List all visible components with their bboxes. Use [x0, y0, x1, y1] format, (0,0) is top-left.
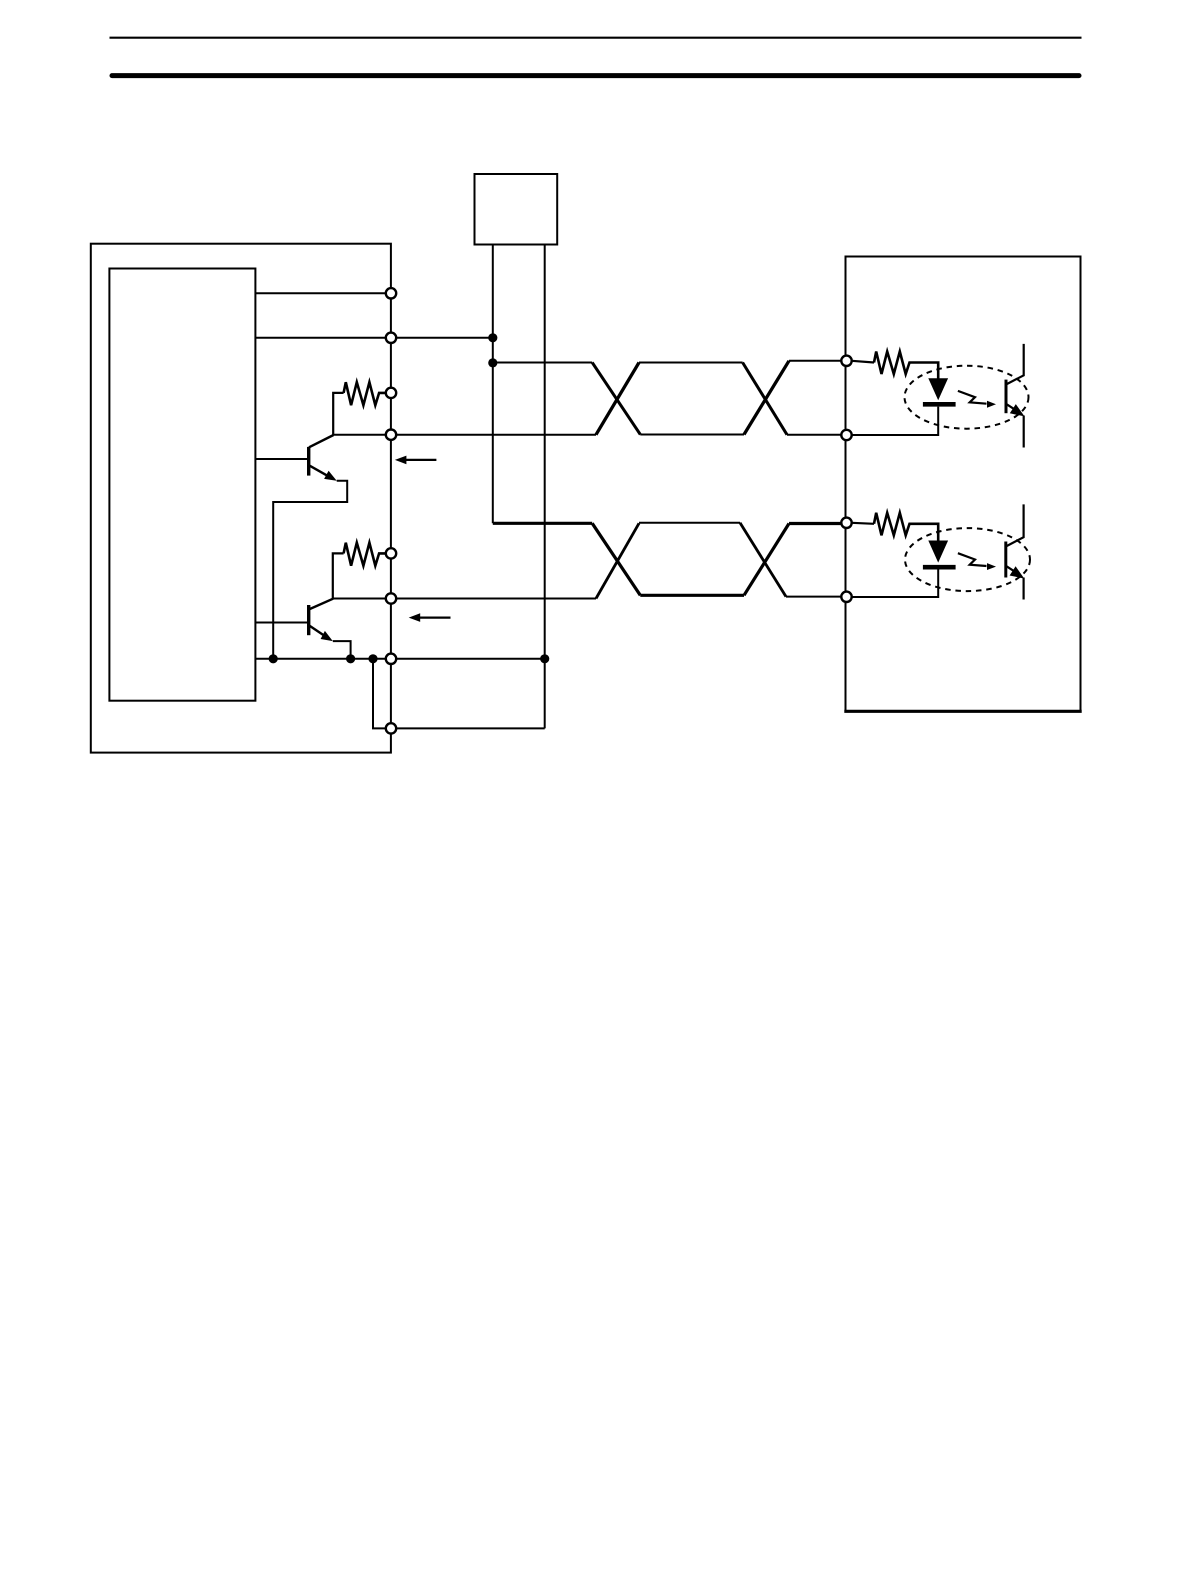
- resistor R1 left lead: [333, 393, 343, 435]
- terminal 5: [386, 548, 396, 558]
- wire Q2 emitter route: [333, 641, 351, 659]
- wire LED D1 cathode to terminal: [847, 407, 939, 435]
- wire LED D2 cathode to terminal: [847, 570, 939, 598]
- transistor Q2 emitter arrowhead: [321, 631, 333, 641]
- twisted pair 2 bold wire (from bus elbow): [493, 522, 592, 525]
- junction dot terminal8 branch: [368, 654, 377, 663]
- terminal 8: [386, 723, 396, 733]
- left unit outer box: [91, 244, 391, 753]
- wire common junction line: [255, 658, 544, 660]
- wire bus vertical left: [492, 245, 494, 524]
- terminal 2: [386, 333, 396, 343]
- phototransistor U1 emitter lead: [1023, 416, 1025, 448]
- receiver unit box: [846, 257, 1081, 712]
- header thick rule: [112, 73, 1079, 78]
- junction dot bus common: [540, 654, 549, 663]
- optocoupler 2 light arrow: [958, 553, 987, 566]
- terminal 3: [386, 388, 396, 398]
- phototransistor U2 emitter: [1006, 566, 1020, 575]
- terminal 7: [386, 654, 396, 664]
- terminal 1: [386, 288, 396, 298]
- twisted pair 1 wire A (top-left start): [493, 362, 592, 364]
- resistor R4 lead: [852, 523, 874, 524]
- LED D2: [928, 541, 948, 563]
- connector box: [475, 174, 558, 245]
- arrow input 2: [420, 616, 451, 618]
- phototransistor U1 base bar: [1005, 380, 1008, 414]
- junction dot bus pin2: [488, 333, 497, 342]
- transistor Q2 collector: [309, 599, 333, 610]
- receiver terminal A2: [841, 518, 851, 528]
- transistor Q1 emitter: [309, 465, 330, 477]
- terminal 6: [386, 593, 396, 603]
- header thin rule: [110, 37, 1082, 39]
- resistor R2: [344, 543, 386, 566]
- receiver terminal B2: [841, 592, 851, 602]
- resistor R2 left lead: [333, 553, 344, 598]
- receiver terminal A1: [841, 356, 851, 366]
- driver IC block: [109, 269, 255, 701]
- optocoupler 1 light arrow: [958, 391, 987, 404]
- phototransistor U2 collector: [1006, 504, 1024, 546]
- twisted pair 1 wire B (from terminal 4): [333, 434, 596, 436]
- junction dot emitter Q1: [269, 654, 278, 663]
- LED D1: [928, 378, 948, 400]
- phototransistor U2 base bar: [1004, 542, 1007, 578]
- wire pin1: [255, 292, 391, 294]
- resistor R1: [344, 382, 386, 405]
- receiver terminal B1: [841, 430, 851, 440]
- transistor Q2 base lead wire: [255, 622, 308, 624]
- transistor Q1 collector: [309, 435, 334, 447]
- wire Q1 emitter route: [273, 481, 347, 659]
- resistor R3 lead: [852, 361, 874, 363]
- transistor Q1 emitter arrowhead: [324, 471, 337, 481]
- junction dot bus pair1: [488, 358, 497, 367]
- transistor Q1 base bar: [307, 447, 310, 476]
- LED D1 cathode bar: [923, 402, 956, 407]
- optocoupler 2 dashed ellipse: [905, 528, 1030, 591]
- twisted pair 2 thin wire (from terminal 6): [333, 598, 596, 600]
- resistor R4: [874, 513, 938, 541]
- junction dot emitter Q2: [346, 654, 355, 663]
- resistor R3: [874, 352, 938, 379]
- LED D2 cathode bar: [923, 565, 956, 570]
- optocoupler 1 dashed ellipse: [905, 366, 1029, 429]
- wire bus vertical right: [544, 245, 546, 729]
- transistor Q2 emitter: [309, 625, 327, 637]
- phototransistor U1 emitter: [1006, 404, 1020, 413]
- phototransistor U1 collector: [1006, 344, 1024, 385]
- transistor Q2 base bar: [307, 605, 310, 635]
- wire pin2 to bus: [255, 337, 492, 339]
- phototransistor U2 emitter lead: [1022, 578, 1024, 600]
- receiver unit box bottom edge: [844, 710, 1081, 713]
- wire to terminal 8: [373, 659, 545, 729]
- terminal 4: [386, 430, 396, 440]
- arrow input 1: [406, 459, 437, 461]
- transistor Q1 base lead wire: [255, 458, 308, 460]
